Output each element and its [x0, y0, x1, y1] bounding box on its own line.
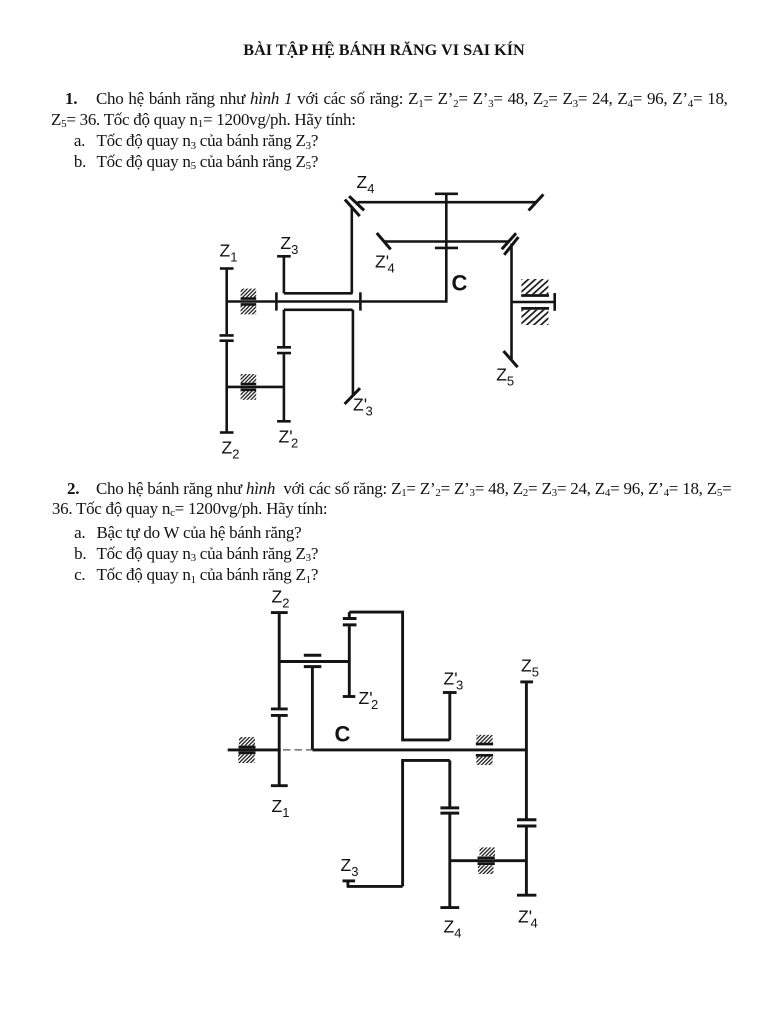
gear Z1 top end cap — [220, 267, 234, 270]
svg-text:Z4: Z4 — [444, 917, 462, 941]
problem 2 line 2 — [52, 498, 327, 520]
lower bearing pad lines — [478, 858, 495, 864]
sleeve right end tick — [359, 292, 362, 310]
bevel double slash at Z5 shaft top — [502, 233, 519, 255]
central planet shaft caps (gear on arm) — [435, 194, 458, 248]
right bearing on main axis (fixed support) pad lines — [476, 744, 493, 755]
svg-text:Z'3: Z'3 — [353, 395, 373, 419]
gear Z'2 vertical shaft — [283, 310, 286, 422]
svg-text:Z2: Z2 — [272, 587, 290, 611]
right bearing stub shaft — [512, 301, 555, 304]
bearing hatch lower-left (fixed support) — [241, 374, 257, 383]
frame: top line and right vertical down to Z'3 — [349, 612, 450, 740]
gear Z'2 stub above mesh — [348, 612, 351, 617]
gear Z'2 end cap — [277, 420, 291, 423]
shaft of gears Z2-Z1 (left vertical) — [278, 613, 281, 786]
right bearing end tick — [553, 293, 556, 311]
bevel gear Z4 double slash — [345, 196, 364, 216]
gear Z2 top cap — [271, 611, 288, 614]
main axis line left solid — [228, 748, 281, 751]
gear mesh ticks on Z'2 shaft — [343, 619, 357, 625]
lower bearing hatch blocks — [480, 847, 496, 856]
main axis dashed centerline — [283, 749, 312, 751]
problem 1 item b — [74, 151, 86, 173]
planet vertical link to arm — [311, 668, 314, 750]
svg-text:Z'4: Z'4 — [518, 907, 538, 931]
gear Z1 bottom cap — [271, 784, 288, 787]
svg-text:Z'3: Z'3 — [444, 669, 464, 693]
svg-text:Z3: Z3 — [341, 855, 359, 879]
upper horizontal shaft from Z2 — [279, 660, 349, 663]
gear Z3 end cap — [277, 255, 291, 258]
svg-text:C: C — [452, 271, 468, 296]
svg-text:Z3: Z3 — [280, 233, 298, 257]
gear Z'3 vertical shaft — [352, 310, 355, 396]
bevel gear Z'4 slash — [377, 233, 391, 249]
slash at right end of top line — [529, 194, 544, 210]
gear Z'4 bottom cap — [517, 894, 536, 897]
right bearing hatch blocks — [521, 279, 548, 294]
svg-text:Z1: Z1 — [220, 241, 238, 265]
sleeve left end tick — [275, 292, 278, 310]
problem 2 line 1 — [96, 478, 731, 500]
input shaft horizontal line + arm C vertical to planet carrier — [227, 194, 447, 302]
sleeve (hollow shaft) lower line — [284, 308, 353, 311]
bevel gear Z'3 slash — [345, 388, 360, 404]
lower horizontal line bevel Z'4 — [384, 240, 508, 243]
gear Z2 bottom end cap — [220, 431, 234, 434]
problem 1 line 1 — [96, 88, 728, 110]
bearing pad lines lower-left bearing — [241, 384, 257, 390]
left bearing pad lines — [239, 747, 256, 753]
gear Z'3 cap — [443, 691, 457, 694]
gear Z3 cap — [343, 879, 356, 882]
link line between Z4 and Z'4 shafts — [450, 859, 527, 862]
gear Z3 stub — [346, 881, 349, 887]
bevel gear Z5 slash — [504, 351, 518, 367]
svg-text:Z4: Z4 — [357, 172, 375, 196]
gear mesh ticks on Z1-Z2 shaft — [271, 709, 288, 716]
svg-text:Z2: Z2 — [222, 438, 240, 462]
vertical link sleeve to bevel Z4 — [350, 208, 353, 293]
gear Z4 vertical shaft — [448, 760, 451, 907]
bearing hatch upper-left (fixed support) — [241, 289, 257, 298]
problem 2 item c — [74, 564, 85, 586]
svg-text:C: C — [335, 722, 351, 747]
svg-text:Z'2: Z'2 — [279, 427, 299, 451]
svg-text:Z5: Z5 — [521, 656, 539, 680]
problem 2 item a — [74, 522, 85, 544]
svg-text:Z5: Z5 — [496, 365, 514, 389]
bearing pad lines upper-left bearing — [241, 299, 257, 305]
svg-text:Z'2: Z'2 — [359, 688, 379, 712]
problem 2 item b — [74, 543, 86, 565]
problem 1 item a — [74, 130, 85, 152]
gear mesh ticks on Z'2 shaft — [277, 347, 291, 353]
gear Z5 top cap — [520, 680, 533, 683]
gear Z'2 vertical shaft — [348, 626, 351, 696]
gear Z4 bottom cap — [440, 906, 459, 909]
problem 1 number — [65, 88, 77, 110]
shaft of gears Z1-Z2 (left vertical shaft) — [225, 269, 228, 433]
svg-text:Z'4: Z'4 — [375, 252, 395, 276]
gear Z5-Z'4 vertical shaft — [525, 682, 528, 895]
left bearing hatch blocks — [239, 737, 255, 746]
sleeve (hollow shaft) upper line — [284, 292, 353, 295]
gear mesh ticks on Z5-Z'4 shaft — [517, 820, 536, 826]
gear mesh ticks on Z4 shaft — [440, 808, 459, 813]
top horizontal line to bevel Z4 — [358, 201, 537, 204]
right bearing on main axis hatch blocks — [476, 735, 492, 743]
gear Z'3 vertical shaft — [448, 693, 451, 740]
problem 2 number — [67, 478, 79, 500]
gear Z5 vertical shaft — [510, 244, 513, 360]
gear mesh ticks above/below at planet — [304, 655, 322, 666]
gear Z3 vertical shaft — [283, 256, 286, 293]
title — [0, 39, 768, 61]
main axis line right solid (arm C) — [312, 748, 526, 751]
gear mesh ticks on Z1-Z2 shaft — [220, 335, 234, 340]
right bearing pad lines — [521, 296, 549, 309]
lower frame: top edge and left vertical — [403, 760, 450, 886]
problem 1 line 2 — [51, 109, 356, 131]
lower-left horizontal shaft line Z2-Z'2 — [227, 386, 284, 389]
svg-text:Z1: Z1 — [272, 796, 290, 820]
horizontal line to gear Z3 — [347, 885, 403, 888]
gear Z'2 bottom cap — [343, 695, 356, 698]
